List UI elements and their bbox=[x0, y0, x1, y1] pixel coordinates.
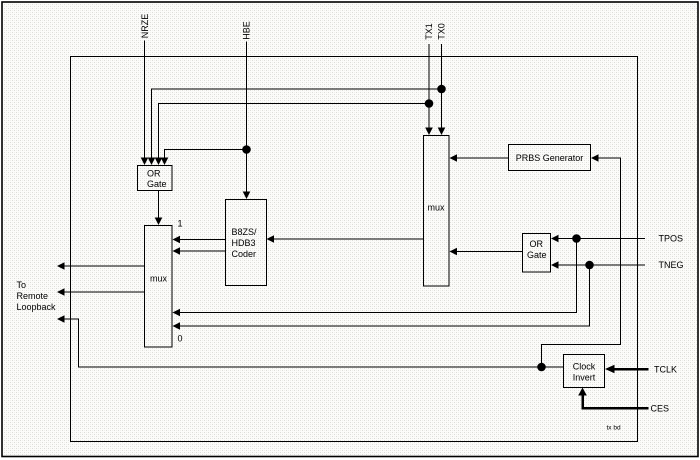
wire CES input (bold) bbox=[583, 394, 649, 408]
PRBS generator U3 bbox=[509, 145, 591, 171]
svg-text:To: To bbox=[17, 280, 27, 290]
arrowhead OR U4 output into mux M2 bbox=[450, 248, 458, 256]
wire mux M2 output to coder U2 bbox=[273, 238, 424, 240]
arrowhead mux M2 output into coder U2 bbox=[267, 235, 275, 243]
svg-text:NRZE: NRZE bbox=[140, 14, 150, 39]
junction HBE dot bbox=[242, 145, 251, 154]
arrowhead TPOS into OR gate U4 bbox=[551, 235, 559, 243]
wire coder U2 output 1 to mux M1 bbox=[179, 239, 226, 241]
arrowhead PRBS output into mux M2 bbox=[450, 154, 458, 162]
svg-text:1: 1 bbox=[178, 219, 183, 229]
svg-text:TX1: TX1 bbox=[424, 23, 434, 40]
wire TX1 branch to OR gate input 3 bbox=[159, 104, 430, 159]
wire TX1 input bbox=[428, 44, 430, 128]
svg-text:mux: mux bbox=[428, 203, 446, 213]
clock invert U5 bbox=[564, 355, 605, 388]
label tx bd bbox=[607, 425, 621, 432]
arrowhead loopback output 2 bbox=[57, 288, 65, 296]
svg-text:TNEG: TNEG bbox=[659, 260, 684, 270]
svg-text:PRBS Generator: PRBS Generator bbox=[516, 153, 584, 163]
svg-text:Gate: Gate bbox=[147, 179, 167, 189]
arrowhead TPOS feedback into mux M1 bbox=[173, 309, 181, 317]
wire mux M1 output 1 to remote loopback bbox=[63, 265, 145, 267]
mux M1 (left) bbox=[145, 226, 173, 348]
arrowhead loopback output 1 bbox=[57, 262, 65, 270]
svg-text:tx bd: tx bd bbox=[607, 425, 621, 432]
inner boundary rectangle bbox=[71, 57, 638, 442]
svg-text:Clock: Clock bbox=[573, 362, 596, 372]
wire mux M1 output 2 to remote loopback bbox=[63, 291, 145, 293]
arrowhead loopback output 3 bbox=[57, 315, 65, 323]
svg-text:Invert: Invert bbox=[573, 373, 596, 383]
svg-text:Loopback: Loopback bbox=[17, 302, 57, 312]
svg-text:TPOS: TPOS bbox=[659, 234, 684, 244]
junction clock loopback dot bbox=[537, 363, 546, 372]
wire HBE input bbox=[246, 42, 248, 193]
junction TX1 dot bbox=[425, 99, 434, 108]
wire TX0 input bbox=[441, 44, 443, 128]
arrowhead TNEG feedback into mux M1 bbox=[173, 322, 181, 330]
mux M2 (right) bbox=[424, 136, 450, 287]
wire feedback to PRBS generator bbox=[542, 158, 621, 367]
svg-text:OR: OR bbox=[530, 239, 544, 249]
arrowhead coder output 1 into mux M1 bbox=[173, 236, 181, 244]
arrowhead coder output 2 into mux M1 bbox=[173, 247, 181, 255]
wire TPOS input bbox=[557, 238, 645, 240]
arrowhead HBE into coder U2 top bbox=[243, 192, 251, 200]
node NRZE label bbox=[140, 14, 150, 39]
svg-text:Coder: Coder bbox=[232, 249, 257, 259]
wire OR gate output to mux M1 select bbox=[158, 191, 160, 219]
svg-text:mux: mux bbox=[150, 274, 168, 284]
B8ZS/HDB3 coder U2 bbox=[226, 200, 267, 286]
wire TNEG feedback to mux M1 bbox=[179, 265, 590, 326]
node CES label bbox=[651, 404, 670, 414]
node TPOS label bbox=[659, 234, 684, 244]
junction TPOS dot bbox=[572, 234, 581, 243]
OR gate U1 (left) bbox=[138, 166, 173, 191]
wire OR gate U4 output to mux M2 bbox=[456, 251, 523, 253]
node TCLK label bbox=[654, 365, 677, 375]
wire NRZE input bbox=[144, 41, 146, 159]
label To Remote Loopback bbox=[17, 280, 57, 312]
node HBE label bbox=[242, 21, 252, 40]
svg-text:OR: OR bbox=[147, 169, 161, 179]
arrowhead TCLK into clock invert U5 bbox=[605, 365, 615, 374]
wire coder U2 output 2 to mux M1 bbox=[179, 250, 226, 252]
wire TNEG input bbox=[557, 264, 645, 266]
label 1 (mux M1 input 1) bbox=[178, 219, 183, 229]
node TX0 label bbox=[437, 23, 447, 40]
svg-text:CES: CES bbox=[651, 404, 670, 414]
arrowhead feedback into PRBS generator bbox=[591, 154, 599, 162]
wire TCLK input (bold) bbox=[613, 368, 649, 371]
node TX1 label bbox=[424, 23, 434, 40]
wire clock loopback line to remote loopback bbox=[63, 319, 564, 367]
svg-text:TCLK: TCLK bbox=[654, 365, 677, 375]
svg-text:TX0: TX0 bbox=[437, 23, 447, 40]
arrowheads into OR gate U1 top bbox=[141, 158, 169, 166]
svg-text:0: 0 bbox=[178, 334, 183, 344]
label 0 (mux M1 input 0) bbox=[178, 334, 183, 344]
wire TX0 branch to OR gate input 2 bbox=[152, 89, 442, 158]
arrowhead CES into clock invert U5 bottom bbox=[578, 388, 587, 396]
svg-text:Gate: Gate bbox=[527, 250, 547, 260]
arrowhead into mux M1 top bbox=[155, 218, 163, 226]
junction TX0 dot bbox=[437, 85, 446, 94]
wire TPOS feedback to mux M1 bbox=[179, 239, 577, 313]
wire HBE branch to OR gate input 4 bbox=[165, 150, 247, 159]
svg-text:Remote: Remote bbox=[17, 291, 49, 301]
OR gate U4 (right) bbox=[523, 234, 551, 273]
svg-text:HDB3: HDB3 bbox=[232, 238, 256, 248]
arrowheads TX1 TX0 into mux M2 top bbox=[425, 128, 445, 136]
arrowhead TNEG into OR gate U4 bbox=[551, 261, 559, 269]
wire PRBS output to mux M2 bbox=[456, 157, 509, 159]
svg-text:HBE: HBE bbox=[242, 21, 252, 40]
junction TNEG dot bbox=[585, 261, 594, 270]
node TNEG label bbox=[659, 260, 684, 270]
svg-text:B8ZS/: B8ZS/ bbox=[232, 227, 258, 237]
